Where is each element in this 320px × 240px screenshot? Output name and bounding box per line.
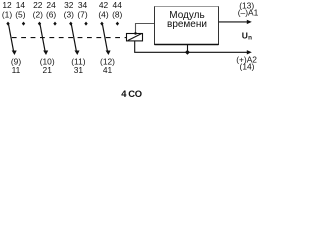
wire A1	[219, 21, 248, 23]
svg-text:(4): (4)	[98, 9, 108, 19]
svg-text:4 CO: 4 CO	[121, 88, 142, 99]
svg-text:(14): (14)	[240, 62, 255, 72]
arrow A1	[247, 20, 252, 24]
svg-text:(–)A1: (–)A1	[238, 7, 259, 17]
contact K1 movable blade	[9, 24, 14, 51]
svg-text:(1): (1)	[2, 9, 12, 19]
contact K3 movable blade	[71, 24, 76, 51]
svg-text:(3): (3)	[64, 9, 74, 19]
contact K2 movable blade	[40, 24, 45, 51]
svg-text:n: n	[248, 34, 252, 41]
arrow A2	[247, 50, 252, 54]
contact K3 common terminal arrow 31	[75, 51, 80, 56]
label Un	[242, 31, 252, 42]
mechanical linkage dashed line	[12, 37, 127, 39]
svg-text:21: 21	[43, 65, 53, 75]
contact K1 common terminal arrow 11	[12, 51, 17, 56]
svg-text:(5): (5)	[15, 9, 25, 19]
svg-text:11: 11	[12, 65, 21, 75]
contact K2 NO terminal 24	[53, 22, 56, 26]
svg-text:(2): (2)	[33, 9, 43, 19]
svg-text:U: U	[242, 31, 248, 41]
relay coil A	[127, 34, 143, 41]
junction coil top	[134, 32, 137, 35]
time module box U1	[155, 7, 219, 45]
wire coil bottom to A2	[135, 41, 248, 52]
contact K1 NO terminal 14	[22, 22, 25, 26]
wire coil top to module	[136, 24, 156, 34]
svg-text:(8): (8)	[112, 9, 122, 19]
contact K2 common terminal arrow 21	[43, 51, 48, 56]
contact K4 NO terminal 44	[116, 22, 119, 26]
contact K1 NC terminal 12	[6, 22, 9, 26]
contact K3 NO terminal 34	[84, 22, 87, 26]
svg-text:31: 31	[74, 65, 84, 75]
contact K3 NC terminal 32	[69, 22, 72, 26]
svg-text:времени: времени	[167, 19, 207, 30]
svg-text:(6): (6)	[46, 9, 56, 19]
svg-text:(7): (7)	[77, 9, 87, 19]
svg-text:41: 41	[103, 65, 113, 75]
contact K4 common terminal arrow 41	[106, 51, 111, 56]
contact K4 movable blade	[102, 24, 107, 51]
contact K2 NC terminal 22	[38, 22, 41, 26]
wire module bottom to A2	[187, 45, 189, 53]
contact K4 NC terminal 42	[100, 22, 103, 26]
junction node A2 wire	[185, 50, 190, 55]
